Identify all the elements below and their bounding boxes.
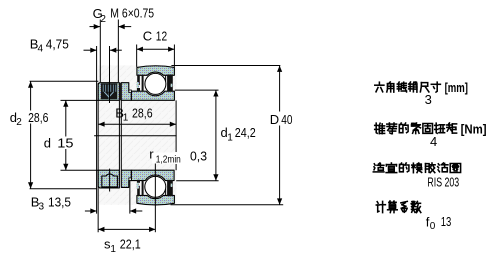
ext line d bottom: [61, 169, 99, 171]
svg-text:2: 2: [16, 117, 22, 128]
svg-text:[mm]: [mm]: [445, 81, 468, 95]
ext line screw axis / B4 right: [109, 46, 111, 103]
svg-text:0,3: 0,3: [190, 149, 207, 164]
ext line D bottom: [171, 204, 284, 206]
ext line B4/B3 left: [96, 46, 98, 214]
housing/shaft hatch zone: [98, 65, 176, 204]
svg-text:2: 2: [100, 14, 106, 25]
ext line collar face / B1 / s1 left: [97, 83, 99, 233]
dim B3 arrows: [85, 210, 97, 212]
dim C: [137, 48, 175, 50]
svg-text:D: D: [270, 112, 279, 127]
set screw axis lower: [109, 169, 111, 192]
spec label tightening torque [Nm]: [376, 123, 377, 133]
ext line G2 right: [117, 20, 119, 83]
set screw lower (outside view): [102, 174, 118, 187]
dim d1 vertical: [215, 90, 217, 180]
svg-text:22,1: 22,1: [120, 236, 141, 251]
collar/inner-ring joint lines through bore: [118, 100, 120, 170]
set screw upper (sectioned): [101, 83, 117, 99]
svg-text:4: 4: [38, 44, 44, 55]
seal lower left: [137, 186, 140, 196]
ext line d2 bottom: [30, 188, 97, 190]
inner ring extension step lower: [121, 170, 131, 187]
dim s1: [98, 228, 155, 230]
ball lower centerline: [154, 157, 156, 232]
svg-text:0: 0: [430, 221, 436, 232]
spec label rubber seating ring: [379, 163, 380, 164]
spec label calculation factor: [376, 202, 379, 204]
svg-text:13: 13: [441, 214, 452, 229]
svg-text:1: 1: [227, 132, 233, 143]
spec label hex key size [mm]: [378, 82, 380, 84]
outer ring lower section: [137, 195, 175, 205]
ext line d top: [61, 99, 99, 101]
svg-text:12: 12: [156, 28, 167, 43]
svg-text:3: 3: [39, 202, 45, 213]
svg-text:M 6×0.75: M 6×0.75: [110, 6, 154, 20]
svg-text:RIS 203: RIS 203: [427, 175, 459, 189]
ext line D top: [171, 65, 280, 67]
outer ring upper section: [137, 66, 175, 76]
ext line B3 right: [129, 181, 131, 214]
svg-text:4,75: 4,75: [46, 36, 69, 51]
inner ring collar upper section: [98, 83, 119, 101]
dim d vertical: [65, 100, 67, 170]
svg-text:13,5: 13,5: [48, 194, 71, 209]
dim d2 vertical: [30, 81, 32, 188]
ball lower: [145, 176, 166, 197]
dim B1: [98, 123, 176, 125]
svg-text:1: 1: [110, 244, 116, 255]
bearing axis centerline: [94, 135, 177, 137]
ext line d1 top: [175, 89, 219, 91]
svg-text:r: r: [149, 146, 154, 161]
seal lower right: [167, 180, 173, 196]
dim B4 arrows: [84, 49, 97, 51]
svg-text:1,2min: 1,2min: [156, 155, 181, 166]
svg-text:28,6: 28,6: [132, 105, 153, 120]
inner ring lower band: [131, 170, 174, 180]
ext line C right: [173, 45, 175, 67]
ext line B1 right: [175, 100, 177, 152]
svg-text:C: C: [143, 28, 152, 43]
seal upper right: [167, 75, 173, 92]
svg-text:24,2: 24,2: [235, 125, 256, 140]
ext line d1 bottom: [176, 180, 218, 182]
svg-text:[Nm]: [Nm]: [461, 123, 487, 137]
svg-text:3: 3: [425, 92, 432, 107]
ball upper: [145, 73, 166, 94]
dim G2 arrows: [90, 26, 101, 28]
relief notch upper: [129, 90, 131, 93]
ext line C left: [136, 45, 138, 67]
inner ring extension step upper: [121, 83, 131, 101]
inner ring collar lower (outside view): [98, 170, 119, 188]
ext line G2 left: [99, 20, 101, 83]
svg-text:40: 40: [281, 112, 292, 127]
svg-text:1: 1: [123, 113, 129, 124]
svg-text:28,6: 28,6: [28, 110, 48, 125]
svg-text:4: 4: [430, 134, 437, 149]
ext line d2 top: [30, 80, 99, 82]
collar joint gap upper: [119, 83, 121, 101]
svg-text:15: 15: [57, 135, 73, 150]
dim D vertical: [279, 66, 281, 205]
seal upper left: [137, 75, 140, 85]
inner ring upper band: [131, 91, 174, 100]
svg-text:d: d: [44, 135, 51, 150]
relief notch lower: [129, 178, 131, 181]
